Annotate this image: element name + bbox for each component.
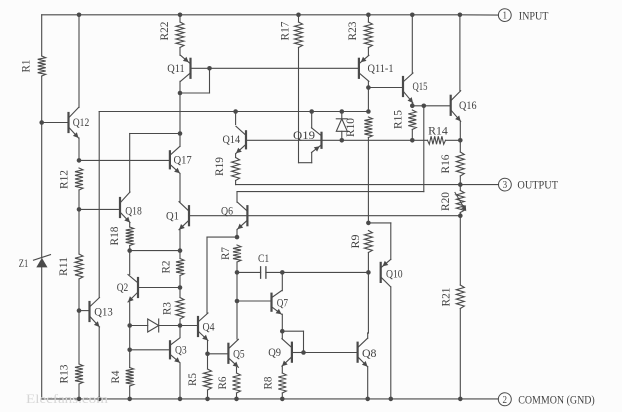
node Q9 base / Q8 base <box>301 350 306 355</box>
wire Q9 base jog <box>282 330 303 332</box>
wire Q14 collector <box>235 112 237 125</box>
svg-text:R14: R14 <box>428 123 448 137</box>
wire Q4 emitter <box>207 341 209 354</box>
capacitor C1 <box>260 267 262 278</box>
wire input lead <box>460 14 499 16</box>
resistor R7 <box>233 245 241 262</box>
transistor Q2 <box>137 278 139 297</box>
wire R9 bottom <box>367 253 369 273</box>
wire R23 top <box>367 15 369 22</box>
wire R12 to R11 <box>78 190 80 254</box>
svg-text:R7: R7 <box>218 247 232 260</box>
svg-text:Q6: Q6 <box>221 204 233 218</box>
resistor R8 <box>278 373 286 393</box>
wire Q13 base <box>79 310 90 312</box>
node R4 / Q3 base <box>127 348 132 353</box>
wire Q6 collector <box>236 192 238 203</box>
svg-text:Q11-1: Q11-1 <box>368 61 394 75</box>
wire left rail lower <box>41 267 43 399</box>
node R6 / rail <box>234 397 239 402</box>
wire Q18 collector to Q17 column <box>130 133 180 135</box>
transistor Q4 <box>197 317 199 336</box>
node R15 / R14 <box>410 138 415 143</box>
wire Q16 emitter <box>459 121 461 140</box>
wire bottom common rail <box>42 398 499 400</box>
svg-text:Q16: Q16 <box>459 98 477 112</box>
svg-text:Q11: Q11 <box>167 61 185 75</box>
wire R5 to rail <box>207 390 209 399</box>
wire Q9 base <box>292 352 304 354</box>
wire R7 bottom <box>236 262 238 272</box>
wire Q11 base-collector strap <box>209 68 211 93</box>
wire R17 to Q19 emitter <box>298 48 300 163</box>
node Q3 emitter / rail <box>178 397 183 402</box>
wire R18 node to Q1 emitter node <box>130 250 180 252</box>
wire R21 to rail <box>459 309 461 399</box>
wire Q11-1 collector <box>367 81 369 87</box>
node top rail / R22 <box>178 13 183 18</box>
node bias bus / Q14 collector <box>233 109 238 114</box>
resistor R23 <box>364 22 372 48</box>
svg-text:R15: R15 <box>391 110 405 129</box>
resistor R13 <box>75 364 83 384</box>
resistor R4 <box>126 368 134 387</box>
wire D1 anode lead <box>341 131 343 140</box>
svg-text:Q18: Q18 <box>125 204 142 218</box>
svg-text:R18: R18 <box>107 227 121 246</box>
wire left rail middle <box>41 76 43 258</box>
wire R2 to R3 <box>179 276 181 298</box>
node top rail / R17 <box>296 13 301 18</box>
wire Q2 base <box>138 287 180 289</box>
node top rail / Q12 collector <box>77 13 82 18</box>
wire Q19 collector <box>311 112 313 129</box>
svg-text:1: 1 <box>503 11 508 22</box>
wire R14 right lead <box>446 139 461 141</box>
node Q11 collector <box>178 91 183 96</box>
svg-text:Q7: Q7 <box>277 295 288 309</box>
resistor R16 <box>456 152 464 176</box>
node R18 / Q2 collector <box>127 248 132 253</box>
svg-text:Q3: Q3 <box>175 343 187 357</box>
wire R20 node to R21 <box>459 216 461 285</box>
wire R17 top <box>298 15 300 22</box>
transistor Q14 <box>245 131 247 148</box>
wire bias bus y111 <box>99 111 368 113</box>
wire R22 to Q11 <box>179 48 181 56</box>
wire Q9 emitter <box>281 366 283 373</box>
svg-text:Q9: Q9 <box>268 345 281 359</box>
svg-text:R23: R23 <box>345 22 359 41</box>
wire Q4 collector link <box>207 236 237 238</box>
node top rail / Q15 collector <box>410 13 415 18</box>
wire R4 link <box>129 350 131 368</box>
node Q2 emitter / R4 / diode <box>127 323 132 328</box>
node Q4 emitter / R5 / Q5 base <box>205 352 210 357</box>
node Q16 emitter / R14 / R16 <box>458 138 463 143</box>
node Q3 collector / R3 / Q4 base <box>178 323 183 328</box>
wire Q15 collector <box>411 15 413 73</box>
wire R23 to Q11-1 <box>367 48 369 56</box>
svg-text:Q2: Q2 <box>117 280 129 294</box>
wire R15 bottom <box>411 130 413 141</box>
transistor Q5 <box>227 344 229 363</box>
node bias bus / D1 cathode <box>340 109 345 114</box>
wire sense drop <box>423 106 425 192</box>
resistor R10 <box>364 117 372 138</box>
wire left rail upper <box>41 15 43 56</box>
svg-text:Z1: Z1 <box>19 256 29 270</box>
transistor Q18 <box>119 198 121 217</box>
transistor Q17 <box>169 151 171 168</box>
node Q7 emitter / Q9 collector <box>280 329 285 334</box>
resistor R15 <box>408 110 416 130</box>
terminal 2 COMMON (GND) <box>498 393 511 406</box>
wire Q19 emitter jog <box>299 162 312 164</box>
wire Q15 emitter <box>411 103 413 106</box>
wire R20 top link <box>459 185 461 191</box>
svg-text:R2: R2 <box>158 261 172 274</box>
resistor R18 <box>126 227 134 246</box>
terminal 1 INPUT <box>498 9 511 22</box>
transistor Q9 <box>291 343 293 362</box>
node bias bus / Q19 collector <box>309 109 314 114</box>
wire R10 to R9 node <box>367 138 369 223</box>
wire Q17 base <box>79 159 170 161</box>
svg-text:OUTPUT: OUTPUT <box>517 178 558 192</box>
wire Q17 emitter to Q1 collector <box>179 174 181 203</box>
wire Q17 collector link <box>179 134 181 147</box>
svg-text:C1: C1 <box>258 251 269 265</box>
wire R5 link <box>207 354 209 369</box>
wire Q6 emitter <box>236 230 238 238</box>
wire Q14 emitter <box>235 154 237 158</box>
svg-text:R19: R19 <box>212 157 226 176</box>
resistor R20 <box>456 191 464 213</box>
wire Q9 collector <box>281 331 283 339</box>
wire Q18 emitter <box>129 223 131 228</box>
resistor R17 <box>295 22 303 48</box>
svg-text:R10: R10 <box>343 118 357 137</box>
wire R20 bottom <box>459 213 461 216</box>
resistor R12 <box>75 168 83 190</box>
node Q13 emitter / rail <box>97 397 102 402</box>
node C1 / Q7 collector <box>280 270 285 275</box>
wire R4 top <box>129 326 131 350</box>
svg-text:Q8: Q8 <box>362 346 377 360</box>
diode D1 <box>336 119 347 132</box>
resistor R11 <box>75 254 83 279</box>
transistor Q19 <box>320 133 322 148</box>
wire Q7 base <box>237 300 272 302</box>
svg-text:R13: R13 <box>57 365 71 384</box>
transistor Q10 <box>380 263 382 282</box>
node bias bus end / R10 <box>366 109 371 114</box>
svg-text:R6: R6 <box>215 377 229 390</box>
resistor R14 <box>428 136 446 144</box>
diode D2 <box>148 319 159 332</box>
transistor Q15 <box>402 77 404 96</box>
wire Q11 collector <box>179 81 181 93</box>
wire Q12 base <box>42 122 69 124</box>
node R8 / rail <box>280 397 285 402</box>
resistor R5 <box>204 369 212 390</box>
wire C1 left lead <box>237 271 261 273</box>
wire Q8 emitter <box>367 367 369 399</box>
wire Q3 collector <box>179 326 181 338</box>
svg-text:Elecfans.com: Elecfans.com <box>26 391 108 406</box>
node Q8 emitter / rail <box>365 397 370 402</box>
wire Q4 base <box>180 325 198 327</box>
wire R16 bottom <box>459 176 461 185</box>
svg-text:R21: R21 <box>438 288 452 307</box>
node R12-R11 / Q18 base <box>77 207 82 212</box>
svg-text:Q4: Q4 <box>203 320 215 334</box>
wire Q18 collector <box>129 134 131 193</box>
svg-text:R4: R4 <box>108 371 122 384</box>
wire Q10 base node down to Q8 <box>367 272 369 333</box>
wire Q2 collector <box>129 251 131 275</box>
wire Q11-1 node to R10 <box>367 88 369 112</box>
resistor R21 <box>456 285 464 309</box>
transistor Q16 <box>450 96 452 115</box>
wire Q10 emitter jog <box>368 222 390 224</box>
wire R11 to R13 <box>78 279 80 364</box>
wire Q10 collector <box>390 287 392 399</box>
wire compensation node bus <box>282 271 368 273</box>
wire D1 cathode lead <box>341 112 343 119</box>
svg-text:Q13: Q13 <box>94 305 113 319</box>
wire Q12 emitter <box>78 138 80 160</box>
resistor R22 <box>176 22 184 48</box>
wire C1 right lead <box>266 271 282 273</box>
node base bus / R20 bottom <box>458 213 463 218</box>
svg-text:R16: R16 <box>438 155 452 174</box>
wire Q11 node down <box>179 93 181 134</box>
resistor R2 <box>176 259 184 276</box>
wire Q13 emitter <box>98 327 100 399</box>
resistor R3 <box>176 298 184 320</box>
node R13 / common rail <box>77 397 82 402</box>
svg-text:R22: R22 <box>157 22 171 41</box>
wire Q16 collector <box>459 15 461 91</box>
wire R16 top link <box>459 140 461 152</box>
node R4 / rail <box>127 397 132 402</box>
svg-text:R20: R20 <box>438 192 452 211</box>
node R21 / rail <box>458 397 463 402</box>
node sense tap <box>422 104 427 109</box>
wire Q5 emitter <box>236 367 238 373</box>
node Q10 collector / rail <box>389 397 394 402</box>
node Q1 emitter / R2 <box>178 248 183 253</box>
node Q11-1 collector / Q15 base <box>366 85 371 90</box>
wire Q12 collector <box>78 15 80 108</box>
wire diode cathode to Q3 collector node <box>159 325 180 327</box>
node R11 / Q13 base <box>77 308 82 313</box>
transistor Q7 <box>270 294 272 311</box>
transistor Q12 <box>67 113 69 132</box>
node Q17 column / Q18 collector <box>178 131 183 136</box>
wire R4 to rail <box>129 386 131 399</box>
wire Q15 base <box>368 87 403 89</box>
wire Q8 base bus <box>304 352 358 354</box>
svg-text:Q10: Q10 <box>386 266 403 280</box>
transistor Q11-1 <box>358 59 360 78</box>
wire Q13 collector riser <box>98 112 100 298</box>
transistor Q1 <box>188 206 190 225</box>
node R10-R9 / Q10 emitter wire <box>366 221 371 226</box>
node left rail / Q12 base <box>39 120 44 125</box>
node Q6 emitter / R7 / Q4 collector wire <box>235 235 240 240</box>
svg-text:R12: R12 <box>56 170 70 189</box>
svg-text:R11: R11 <box>56 257 70 276</box>
wire Q15 emitter to Q16 base <box>412 105 450 107</box>
node Q7 base tap <box>235 299 240 304</box>
wire R18 to node <box>129 246 131 251</box>
wire R13 to rail <box>78 384 80 399</box>
node R5 / rail <box>205 397 210 402</box>
node Q15 emitter / R15 <box>410 104 415 109</box>
wire R19 to output rail <box>235 181 237 185</box>
wire Q2 emitter <box>129 302 131 326</box>
svg-text:3: 3 <box>503 180 508 191</box>
wire Q11 base <box>191 67 210 69</box>
svg-text:Q14: Q14 <box>223 132 241 146</box>
transistor Q6 <box>246 206 248 225</box>
node R2-R3 / Q2 base <box>178 285 183 290</box>
wire Q11 base bus <box>210 67 359 69</box>
resistor R9 <box>364 231 372 253</box>
wire R14 left lead <box>412 139 427 141</box>
svg-text:R9: R9 <box>348 235 362 249</box>
wire output rail <box>236 184 499 186</box>
svg-text:INPUT: INPUT <box>519 8 549 22</box>
wire Q1 emitter <box>179 230 181 251</box>
wire Q18 base <box>79 208 120 210</box>
wire to diode anode <box>130 325 148 327</box>
node top rail / R23 <box>366 13 371 18</box>
wire Q7 emitter <box>281 314 283 331</box>
transistor Q8 <box>357 343 359 362</box>
wire Q8 collector <box>367 333 369 338</box>
wire R8 to rail <box>281 393 283 399</box>
resistor R1 <box>38 56 46 76</box>
svg-text:R1: R1 <box>19 60 33 73</box>
svg-text:Q15: Q15 <box>413 79 428 93</box>
resistor R19 <box>232 158 240 181</box>
wire top supply rail <box>42 14 460 16</box>
wire Q6 collector bus <box>237 191 424 193</box>
wire Q1-Q6 base bus <box>189 215 460 217</box>
resistor R6 <box>233 373 241 393</box>
wire R6 to rail <box>236 393 238 399</box>
wire Q5 base <box>208 353 229 355</box>
svg-text:R5: R5 <box>185 373 199 386</box>
svg-text:R8: R8 <box>261 377 275 390</box>
wire R20 wiper arrow <box>455 193 465 209</box>
svg-text:2: 2 <box>503 395 508 406</box>
node Q12 emitter / R12 / Q17 base <box>77 158 82 163</box>
wire Q14 base bus <box>246 139 412 141</box>
svg-text:Q17: Q17 <box>173 152 191 166</box>
wire R3 to node <box>179 319 181 326</box>
wire R2 top link <box>179 251 181 259</box>
svg-text:R3: R3 <box>159 302 173 315</box>
node top rail / Q16 collector <box>458 13 463 18</box>
node output / R16 / R20 <box>458 182 463 187</box>
wire R22 top <box>179 15 181 22</box>
svg-text:Q5: Q5 <box>233 346 245 360</box>
wire Q3 emitter <box>179 363 181 399</box>
svg-text:Q12: Q12 <box>73 115 90 129</box>
transistor Q3 <box>169 341 171 358</box>
svg-text:R17: R17 <box>277 22 291 41</box>
svg-text:COMMON (GND): COMMON (GND) <box>518 393 595 407</box>
node R7 / C1 left <box>235 270 240 275</box>
node R9 / Q10 base / C1 bus <box>366 270 371 275</box>
zener Z1 <box>36 258 47 268</box>
transistor Q13 <box>88 302 90 321</box>
node Q11 base <box>207 66 212 71</box>
wire Q7 collector <box>281 272 283 290</box>
transistor Q11 <box>189 59 191 78</box>
node Q14 base bus / D1 anode <box>340 138 345 143</box>
wire Q5 collector riser <box>236 272 238 339</box>
terminal 3 OUTPUT <box>499 178 512 191</box>
wire Q3 base <box>130 349 170 351</box>
svg-text:Q1: Q1 <box>166 209 179 223</box>
